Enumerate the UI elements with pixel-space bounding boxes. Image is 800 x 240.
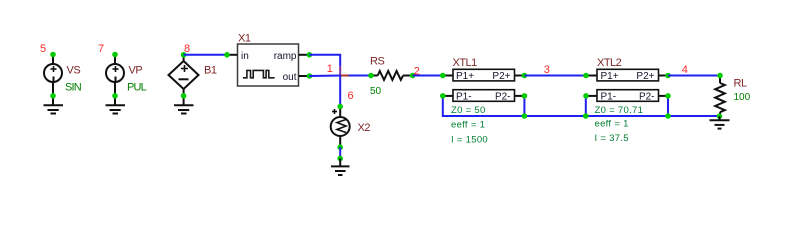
wire X2 to ground <box>339 147 341 158</box>
resistor RS <box>371 71 413 80</box>
wire net 6: ramp to X2 <box>309 55 340 66</box>
pin dot XTL2 P1+ <box>583 73 589 79</box>
svg-text:XTL2: XTL2 <box>597 57 622 69</box>
subcircuit X1 box <box>238 44 299 86</box>
ground under X2 <box>331 158 350 175</box>
pin dot XTL1 P2+ <box>522 73 528 79</box>
svg-text:X1: X1 <box>238 33 251 45</box>
node dot X2 ground <box>337 156 343 162</box>
XTL1 top box <box>453 69 515 81</box>
XTL2 stubs <box>586 76 668 96</box>
X1 pin stub out <box>299 75 310 77</box>
svg-text:in: in <box>241 51 249 62</box>
junction dot rail XTL2 right <box>665 113 671 119</box>
wire net 2: RS to XTL1 <box>413 75 443 77</box>
svg-text:2: 2 <box>414 65 420 77</box>
svg-text:Z0 = 70.71: Z0 = 70.71 <box>595 105 644 116</box>
svg-text:P2-: P2- <box>639 91 655 102</box>
node dot VP top <box>112 52 118 58</box>
behavioral source B1 <box>169 55 199 105</box>
node dot B1 top <box>181 52 187 58</box>
wire net 6 purple overlap segment <box>339 66 341 76</box>
svg-text:I = 37.5: I = 37.5 <box>595 133 629 144</box>
pin dot X1 in <box>224 52 230 58</box>
svg-text:B1: B1 <box>204 65 217 77</box>
nonlinear element X2 <box>331 107 350 148</box>
node dot RL top <box>717 73 723 79</box>
svg-text:I = 1500: I = 1500 <box>451 134 488 145</box>
node dot B1 bottom <box>181 93 187 99</box>
XTL2 P1- to rail wire <box>585 96 587 116</box>
node dot RS right <box>410 73 416 79</box>
svg-text:4: 4 <box>682 64 688 76</box>
pin dot XTL1 P1+ <box>440 73 446 79</box>
node dot X2 bottom <box>337 144 343 150</box>
svg-text:100: 100 <box>734 92 751 103</box>
ground under VS <box>44 105 64 113</box>
svg-text:PUL: PUL <box>127 82 147 94</box>
node dot RS left <box>368 73 374 79</box>
svg-text:5: 5 <box>40 43 46 55</box>
svg-text:3: 3 <box>544 64 550 76</box>
node dot RL bottom <box>717 114 723 120</box>
ground under B1 <box>174 105 194 113</box>
pin dot XTL2 P1- <box>583 93 589 99</box>
svg-text:Z0 = 50: Z0 = 50 <box>451 105 486 116</box>
svg-text:1: 1 <box>327 63 333 75</box>
voltage source VS <box>44 55 62 105</box>
node dot VS top <box>50 52 56 58</box>
svg-text:P2+: P2+ <box>492 71 510 82</box>
svg-text:6: 6 <box>348 90 354 102</box>
X1 pin stub in <box>227 54 238 56</box>
wire net 4: XTL2 to RL <box>668 75 720 77</box>
svg-text:X2: X2 <box>358 122 371 134</box>
node dot VS bottom <box>50 93 56 99</box>
red overlap dash at crossing <box>341 75 349 77</box>
svg-text:RL: RL <box>734 78 747 90</box>
svg-text:P1+: P1+ <box>456 71 474 82</box>
svg-text:ramp: ramp <box>274 51 297 62</box>
wire net 1: X1 out to RS <box>309 75 342 78</box>
svg-text:P1-: P1- <box>456 91 472 102</box>
XTL1 stubs <box>443 76 525 96</box>
svg-text:XTL1: XTL1 <box>453 57 478 69</box>
svg-text:VS: VS <box>67 65 81 77</box>
ground rail wire <box>524 115 719 117</box>
pin dot XTL1 P2- <box>522 93 528 99</box>
resistor RL <box>715 76 725 117</box>
svg-text:P2-: P2- <box>495 91 511 102</box>
wire net 6 lower segment <box>339 76 341 107</box>
XTL2 P2- to rail wire <box>667 96 669 116</box>
XTL1 bottom box <box>453 90 515 102</box>
pulse waveform glyph in X1 <box>243 70 275 77</box>
junction dot rail XTL2 left <box>583 113 589 119</box>
svg-text:eeff = 1: eeff = 1 <box>595 119 629 130</box>
wire net 3: XTL1 to XTL2 <box>524 75 586 77</box>
voltage source VP <box>106 55 124 105</box>
XTL1 P1- to rail wire <box>443 96 525 116</box>
XTL2 top box <box>597 69 659 81</box>
svg-text:P1+: P1+ <box>601 71 619 82</box>
svg-text:P2+: P2+ <box>636 71 654 82</box>
pin dot XTL1 P1- <box>440 93 446 99</box>
pin dot X1 ramp <box>307 52 313 58</box>
svg-text:eeff = 1: eeff = 1 <box>451 120 485 131</box>
ground under RL <box>710 116 730 128</box>
pin dot XTL2 P2- <box>665 93 671 99</box>
pin dot XTL2 P2+ <box>665 73 671 79</box>
XTL1 P2- to rail wire <box>523 96 525 116</box>
node dot X2 top <box>337 104 343 110</box>
junction dot rail XTL1 <box>522 113 528 119</box>
svg-text:VP: VP <box>129 65 143 77</box>
node dot VP bottom <box>112 93 118 99</box>
XTL2 bottom box <box>597 90 659 102</box>
svg-text:50: 50 <box>370 86 382 97</box>
ground under VP <box>106 105 126 113</box>
svg-text:RS: RS <box>370 56 384 68</box>
svg-text:out: out <box>283 72 297 83</box>
pin dot X1 out <box>307 73 313 79</box>
wire net 8: B1 to X1 in <box>184 54 227 56</box>
svg-text:SIN: SIN <box>65 82 82 94</box>
svg-text:P1-: P1- <box>601 91 617 102</box>
X1 pin stub ramp <box>299 54 310 56</box>
svg-text:7: 7 <box>98 43 104 55</box>
